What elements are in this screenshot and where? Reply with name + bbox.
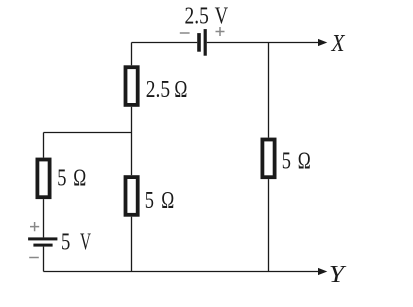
svg-text:Ω: Ω (161, 187, 174, 214)
plus sign of V2 (30, 222, 39, 231)
wire middle branch upper segment (131, 43, 133, 66)
svg-text:2.5: 2.5 (185, 3, 209, 30)
resistor left 5 ohm (37, 160, 49, 198)
wire left branch upper segment (43, 133, 45, 158)
wire right branch lower segment (268, 179, 270, 271)
svg-text:Y: Y (329, 261, 347, 288)
wire left horizontal (left branch to middle branch) (44, 132, 132, 134)
minus sign of V2 (29, 257, 39, 259)
wire left branch lower segment (43, 247, 45, 272)
wire left branch to battery (43, 199, 45, 237)
svg-text:5: 5 (57, 164, 66, 191)
svg-text:5: 5 (145, 187, 154, 214)
wire right branch upper segment (268, 43, 270, 138)
wire top left (node X line, from middle branch to battery) (132, 42, 198, 44)
svg-text:2.5: 2.5 (146, 76, 170, 103)
wire top right (battery to right branch and onwards to X) (207, 42, 319, 44)
svg-text:V: V (215, 3, 229, 30)
minus sign of V1 (180, 32, 190, 34)
svg-text:5: 5 (282, 147, 291, 174)
wire middle branch between resistors (131, 107, 133, 175)
plus sign of V1 (216, 27, 225, 36)
battery V1 2.5 V positive plate (tall bar) (204, 29, 207, 56)
svg-text:5: 5 (61, 228, 70, 255)
svg-text:V: V (80, 228, 91, 255)
wire bottom (node Y line) (44, 271, 320, 273)
resistor 2.5 ohm (126, 67, 138, 105)
resistor middle 5 ohm (126, 177, 138, 215)
arrowhead X (318, 39, 327, 46)
arrowhead Y (318, 268, 327, 275)
svg-text:Ω: Ω (298, 147, 311, 174)
svg-text:Ω: Ω (174, 76, 187, 103)
resistor right 5 ohm (262, 140, 274, 178)
svg-text:X: X (331, 30, 346, 57)
wire middle branch lower segment (131, 217, 133, 272)
svg-text:Ω: Ω (73, 164, 86, 191)
battery V2 5 V negative plate (short bar) (33, 244, 52, 247)
battery V2 5 V positive plate (long bar) (28, 237, 57, 240)
battery V1 2.5 V negative plate (short thick bar) (197, 33, 201, 52)
